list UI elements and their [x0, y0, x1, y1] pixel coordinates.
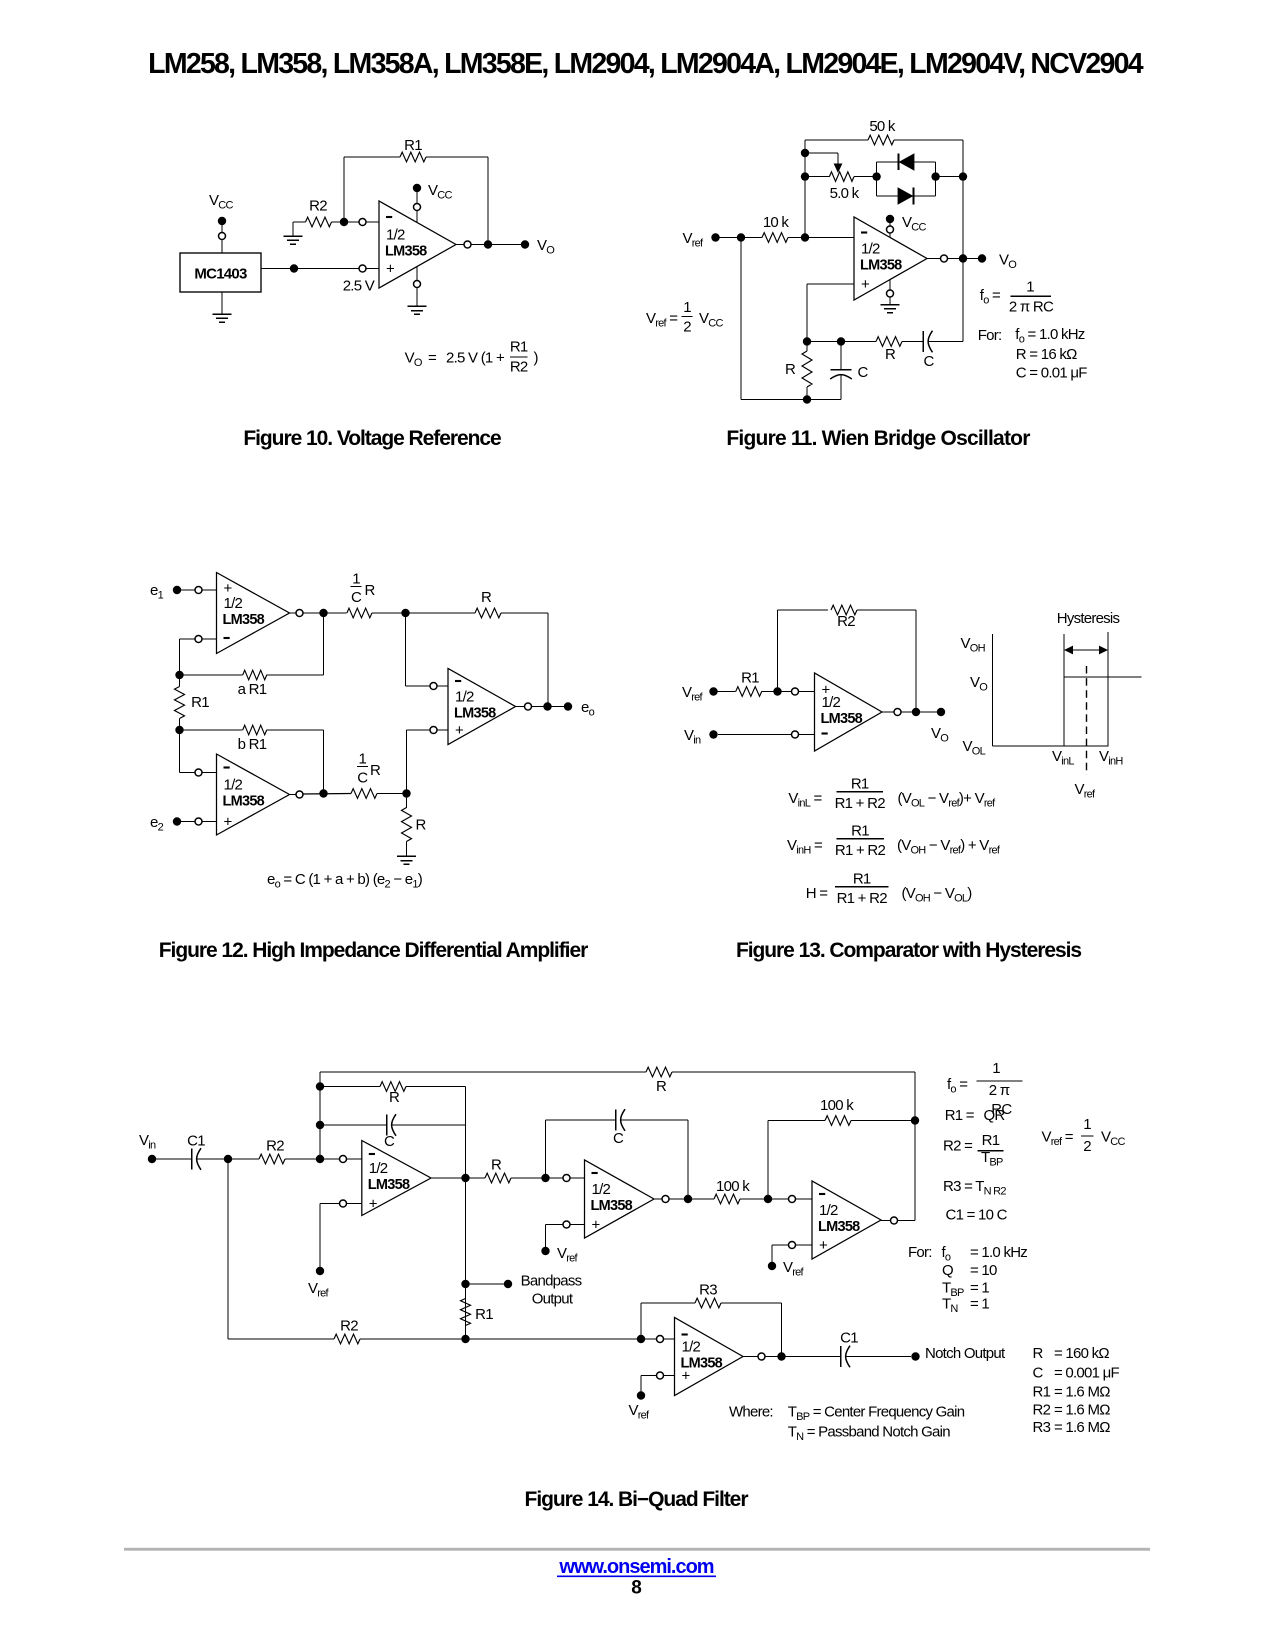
formula H (fig13)	[806, 870, 973, 907]
terminal Vref C (fig14)	[768, 1262, 776, 1270]
svg-text:1/2: 1/2	[386, 227, 405, 244]
svg-text:10 k: 10 k	[763, 214, 790, 231]
node top feedback junction (fig14)	[911, 1116, 919, 1124]
svg-text:Q: Q	[942, 1262, 953, 1279]
potentiometer 5.0 k (fig11)	[805, 172, 877, 182]
svg-text:C: C	[351, 589, 362, 606]
svg-text:+: +	[682, 1368, 691, 1385]
svg-text:Figure 11. Wien Bridge Oscilla: Figure 11. Wien Bridge Oscillator	[726, 427, 1030, 450]
svg-text:LM358: LM358	[223, 612, 265, 628]
resistor 100 k feedback (fig14)	[768, 1116, 915, 1199]
node integrator input junction (fig12)	[401, 609, 409, 617]
svg-text:fo = 1.0 kHz: fo = 1.0 kHz	[1015, 326, 1084, 346]
output wire and node (fig10)	[456, 241, 525, 248]
VCC supply tap (fig10)	[413, 184, 421, 223]
svg-text:R3: R3	[1033, 1419, 1051, 1436]
resistor 10 k (fig11)	[716, 233, 806, 243]
node bottom junction central (fig14)	[461, 1335, 469, 1343]
node minus input junction (fig14 A)	[316, 1155, 324, 1163]
svg-text:R1: R1	[741, 670, 759, 687]
svg-text:R1: R1	[851, 822, 869, 839]
svg-text:R: R	[885, 346, 896, 363]
ground at R2 left (fig10)	[284, 222, 306, 244]
svg-text:100 k: 100 k	[716, 1178, 750, 1195]
op-amp U10 1/2 LM358 (fig14 D)	[675, 1318, 744, 1396]
svg-text:R: R	[365, 582, 376, 599]
wire inverting input B (fig14)	[550, 1175, 585, 1182]
resistor R1 middle (fig12)	[175, 675, 185, 730]
svg-text:1: 1	[1026, 279, 1034, 296]
svg-text:R1: R1	[853, 870, 871, 887]
node summing junction bottom (fig12)	[402, 789, 410, 797]
svg-text:b R1: b R1	[238, 736, 267, 753]
svg-text:Figure 13. Comparator with Hys: Figure 13. Comparator with Hysteresis	[736, 939, 1081, 962]
graph VinH vertical line	[1107, 632, 1109, 746]
svg-text:LM358: LM358	[223, 794, 265, 810]
capacitor C shunt (fig11)	[830, 342, 852, 400]
wire e1 to plus input (fig12)	[181, 587, 217, 594]
graph axes (fig13)	[993, 634, 1109, 746]
svg-text:Where:: Where:	[729, 1404, 773, 1421]
terminal e1 (fig12)	[150, 582, 181, 602]
svg-text:R1: R1	[1033, 1384, 1051, 1401]
ground below R (fig12)	[397, 855, 416, 857]
svg-text:fo =: fo =	[980, 287, 1001, 307]
output wire C (fig14)	[881, 1217, 915, 1224]
svg-text:R: R	[785, 361, 796, 378]
svg-text:1/2: 1/2	[224, 595, 243, 612]
terminal Vin (fig14)	[148, 1155, 156, 1163]
text component values (fig14)	[1033, 1345, 1120, 1436]
formula VinH (fig13)	[787, 822, 1001, 859]
node output U3 junction (fig12)	[319, 609, 327, 617]
node output junction (fig11)	[959, 254, 967, 262]
terminal VO (fig11)	[978, 254, 986, 262]
svg-text:C: C	[1033, 1365, 1044, 1382]
wire right vertical to output C (fig14)	[914, 1072, 916, 1221]
wire Vref divider vertical (fig11)	[740, 238, 742, 400]
wire plus input C to Vref (fig14)	[772, 1242, 812, 1263]
node plus input wire junction (fig10)	[290, 264, 298, 272]
wire plus input B to Vref (fig14)	[546, 1221, 585, 1247]
node output junction (fig10)	[484, 240, 492, 248]
svg-text:= 1: = 1	[970, 1280, 989, 1297]
output wire D (fig14)	[743, 1353, 841, 1360]
node bandpass tap (fig14)	[461, 1280, 469, 1288]
output wire U4 (fig12)	[290, 791, 352, 798]
node second feedback tap (fig14)	[316, 1082, 324, 1090]
terminal Vref (fig13)	[709, 687, 717, 695]
svg-text:Hysteresis: Hysteresis	[1057, 610, 1120, 627]
resistor R1 (fig10 feedback)	[344, 152, 488, 162]
svg-text:www.onsemi.com: www.onsemi.com	[558, 1556, 713, 1578]
node gain network tap (fig11)	[959, 172, 967, 180]
label fraction 1/C R top (fig12)	[351, 571, 376, 607]
svg-text:2.5 V (1 +: 2.5 V (1 +	[446, 350, 505, 367]
svg-text:1/2: 1/2	[369, 1160, 388, 1177]
svg-text:1/2: 1/2	[861, 241, 880, 258]
op-amp U3 1/2 LM358 (fig12 top)	[217, 573, 290, 654]
svg-text:C1: C1	[840, 1330, 858, 1347]
svg-text:1/2: 1/2	[592, 1181, 611, 1198]
footer link www.onsemi.com	[557, 1556, 716, 1578]
terminal eo (fig12)	[564, 702, 572, 710]
svg-text:1/2: 1/2	[224, 777, 243, 794]
svg-text:R: R	[1033, 1345, 1044, 1362]
formula fo (fig14)	[947, 1060, 1022, 1118]
svg-text:= 1.0 kHz: = 1.0 kHz	[970, 1244, 1027, 1261]
node output U5 junction (fig12)	[543, 702, 551, 710]
terminal Vref A (fig14)	[316, 1267, 324, 1275]
node Vref junction (fig11)	[737, 233, 745, 241]
node output D junction (fig14)	[777, 1352, 785, 1360]
capacitor C1 input (fig14)	[156, 1148, 228, 1170]
node feedback junction b (fig12)	[175, 726, 183, 734]
svg-text:1: 1	[352, 571, 360, 588]
node minus input junction (fig10)	[340, 218, 348, 226]
output wire B (fig14)	[654, 1196, 714, 1203]
wire right vertical to output (fig12)	[547, 613, 549, 707]
svg-text:R: R	[656, 1078, 667, 1095]
svg-text:C: C	[613, 1130, 624, 1147]
resistor 50 k (fig11)	[805, 135, 963, 145]
wire feedback right vertical (fig10)	[487, 157, 489, 245]
wire noninverting input (fig10)	[261, 265, 379, 272]
left feedback vertical wire (fig11)	[804, 140, 806, 238]
svg-text:Figure 10. Voltage Reference: Figure 10. Voltage Reference	[243, 427, 501, 450]
svg-text:1/2: 1/2	[819, 1202, 838, 1219]
svg-text:C1 = 10 C: C1 = 10 C	[946, 1207, 1008, 1224]
resistor R3 feedback (fig14)	[641, 1298, 782, 1356]
wire Vin to minus input (fig13)	[718, 731, 815, 738]
svg-text:R1 + R2: R1 + R2	[837, 890, 888, 907]
svg-text:+: +	[819, 1237, 828, 1254]
formula VinL (fig13)	[788, 775, 996, 812]
output wire (fig11)	[927, 255, 978, 262]
graph dashed Vref line	[1086, 666, 1088, 775]
svg-text:LM358: LM358	[385, 244, 427, 260]
wire left feedback vertical (fig14)	[319, 1072, 321, 1159]
svg-text:R1: R1	[851, 775, 869, 792]
svg-text:2 π RC: 2 π RC	[1009, 299, 1054, 316]
wire plus input (fig13)	[778, 688, 815, 695]
svg-text:R2: R2	[1033, 1402, 1051, 1419]
graph output level line	[1064, 676, 1142, 678]
wire plus input U5 (fig12)	[407, 727, 449, 794]
svg-text:LM258, LM358, LM358A, LM358E,: LM258, LM358, LM358A, LM358E, LM2904, LM…	[148, 48, 1144, 80]
svg-text:1/2: 1/2	[682, 1339, 701, 1356]
svg-text:1: 1	[1083, 1116, 1091, 1133]
svg-text:QR: QR	[984, 1107, 1006, 1124]
node inverting input (fig11)	[801, 233, 809, 241]
node diode box left (fig11)	[872, 172, 880, 180]
svg-text:R1 + R2: R1 + R2	[835, 795, 886, 812]
svg-text:= 1.6 MΩ: = 1.6 MΩ	[1054, 1419, 1110, 1436]
wire diode box to right vertical (fig11)	[936, 176, 963, 178]
svg-text:= 1.6 MΩ: = 1.6 MΩ	[1054, 1384, 1110, 1401]
wire central vertical (fig14)	[465, 1087, 467, 1340]
label Bandpass Output (fig14)	[521, 1273, 582, 1308]
svg-text:R1: R1	[982, 1132, 1000, 1149]
svg-text:2.5 V: 2.5 V	[343, 278, 375, 295]
wire inverting input (fig12 top)	[180, 636, 217, 676]
svg-text:H =: H =	[806, 885, 829, 902]
formula VO = 2.5 V (1 + R1/R2) (fig10)	[405, 339, 539, 376]
node output A junction (fig14)	[461, 1174, 469, 1182]
svg-text:R2: R2	[510, 359, 528, 376]
node C feedback tap (fig14)	[316, 1121, 324, 1129]
wire down to inverting input U5 (fig12)	[406, 613, 449, 690]
svg-text:TBP = Center Frequency Gain: TBP = Center Frequency Gain	[788, 1404, 965, 1424]
terminal Vin (fig13)	[709, 730, 717, 738]
svg-text:= 10: = 10	[970, 1262, 997, 1279]
wire plus input D to Vref (fig14)	[641, 1372, 675, 1392]
op-amp U8 1/2 LM358 (fig14 B)	[585, 1160, 655, 1238]
svg-text:R2: R2	[266, 1138, 284, 1155]
svg-text:2 π: 2 π	[989, 1082, 1010, 1099]
svg-text:5.0 k: 5.0 k	[830, 185, 860, 202]
formula R2 = R1/TBP (fig14)	[943, 1132, 1003, 1169]
svg-text:R: R	[416, 817, 427, 834]
formula fo = 1 over 2 pi RC (fig11)	[980, 279, 1054, 316]
pot wiper arm with arrow (fig11)	[805, 153, 842, 173]
svg-text:R2 =: R2 =	[943, 1138, 973, 1155]
output wire U5 (fig12)	[516, 703, 569, 710]
node RC network left (fig11)	[803, 337, 811, 345]
formula R1 = QR (fig14)	[945, 1107, 1006, 1124]
svg-text:R3: R3	[699, 1282, 717, 1299]
text Where legend (fig14)	[729, 1404, 965, 1444]
resistor 1/C R bottom (fig12)	[351, 789, 407, 799]
svg-text:C: C	[357, 770, 368, 787]
terminal Vref B (fig14)	[541, 1247, 549, 1255]
node diode box right (fig11)	[931, 172, 939, 180]
node pot left end (fig11)	[801, 172, 809, 180]
formula Vref = half VCC (fig14)	[1042, 1116, 1126, 1155]
node bottom return junction (fig11)	[803, 395, 811, 403]
svg-text:+: +	[455, 722, 464, 739]
svg-text:+: +	[369, 1196, 378, 1213]
svg-text:TN = Passband Notch Gain: TN = Passband Notch Gain	[788, 1424, 951, 1444]
capacitor C feedback B (fig14)	[546, 1109, 689, 1199]
svg-text:R2: R2	[340, 1318, 358, 1335]
diode D2 pointing right (fig11)	[898, 187, 914, 205]
svg-text:Figure 12. High Impedance Diff: Figure 12. High Impedance Differential A…	[159, 939, 588, 962]
svg-text:C1: C1	[187, 1133, 205, 1150]
wire inverting input (fig11)	[805, 237, 854, 239]
resistor R2 bottom feedback (fig14)	[228, 1159, 641, 1344]
svg-text:Bandpass: Bandpass	[521, 1273, 582, 1290]
resistor a R1 (fig12)	[180, 613, 324, 680]
node plus input junction (fig13)	[773, 687, 781, 695]
svg-text:LM358: LM358	[368, 1177, 410, 1193]
svg-text:R1: R1	[475, 1306, 493, 1323]
svg-text:1/2: 1/2	[822, 694, 841, 711]
svg-text:1: 1	[992, 1060, 1000, 1077]
resistor R shunt (fig12)	[402, 794, 412, 857]
wire e2 to plus input (fig12)	[181, 818, 217, 825]
resistor b R1 (fig12)	[180, 725, 324, 793]
node minus input junction D (fig14)	[637, 1335, 645, 1343]
svg-text:+: +	[386, 261, 395, 278]
pin ground stub (fig11)	[881, 280, 900, 313]
wire feedback left vertical (fig13)	[777, 610, 779, 692]
svg-text:LM358: LM358	[454, 706, 496, 722]
capacitor C1 output (fig14)	[841, 1346, 912, 1368]
capacitor C feedback A (fig14)	[320, 1114, 466, 1136]
terminal Notch Output (fig14)	[911, 1352, 919, 1360]
terminal Bandpass Output (fig14)	[504, 1280, 512, 1288]
svg-text:R1: R1	[510, 339, 528, 356]
svg-text:R: R	[491, 1157, 502, 1174]
resistor R1 (fig13)	[714, 687, 778, 697]
node minus input junction C (fig14)	[764, 1195, 772, 1203]
node input junction (fig14)	[224, 1155, 232, 1163]
svg-text:+: +	[224, 814, 233, 831]
op-amp U2 1/2 LM358 (fig11)	[854, 217, 927, 300]
formula Vref = half VCC (fig11)	[646, 299, 723, 336]
svg-text:= 160 kΩ: = 160 kΩ	[1054, 1345, 1109, 1362]
footer divider rule	[124, 1548, 1150, 1551]
diode D1 pointing left (fig11)	[899, 153, 915, 171]
svg-text:8: 8	[631, 1578, 641, 1599]
node feedback junction a (fig12)	[175, 671, 183, 679]
VCC tap above MC1403	[218, 217, 226, 253]
svg-text:LM358: LM358	[860, 258, 902, 274]
output wire (fig13)	[882, 709, 941, 716]
wire junction to R top (fig12)	[406, 612, 476, 614]
svg-text:=: =	[428, 350, 437, 367]
svg-text:= 1: = 1	[970, 1296, 989, 1313]
node output B junction (fig14)	[684, 1195, 692, 1203]
capacitor C series (fig11)	[923, 331, 963, 353]
svg-text:= 0.001 μF: = 0.001 μF	[1054, 1365, 1120, 1382]
label fraction 1/C R bottom (fig12)	[357, 751, 381, 787]
svg-text:R1 =: R1 =	[945, 1107, 975, 1124]
svg-text:1: 1	[359, 751, 367, 768]
svg-text:For:: For:	[978, 327, 1002, 344]
resistor R1 shunt (fig14)	[461, 1284, 471, 1339]
pin 4 ground stub (fig10)	[408, 267, 427, 315]
svg-text:LM358: LM358	[818, 1219, 860, 1235]
svg-text:C: C	[857, 364, 868, 381]
node output U4 junction (fig12)	[319, 789, 327, 797]
wire feedback right vertical (fig13)	[915, 610, 917, 712]
op-amp U4 1/2 LM358 (fig12 bottom)	[217, 754, 290, 835]
op-amp U9 1/2 LM358 (fig14 C)	[812, 1181, 881, 1259]
node shunt C tap (fig11)	[837, 337, 845, 345]
wire inverting input (fig10)	[348, 219, 379, 226]
wire inverting input (fig12 bottom)	[180, 730, 217, 776]
resistor 1/C R top (fig12)	[347, 608, 406, 618]
wire bandpass output (fig14)	[466, 1283, 505, 1285]
text For: values (fig11)	[978, 326, 1088, 382]
svg-text:100 k: 100 k	[820, 1097, 854, 1114]
VCC supply tap (fig11)	[886, 215, 894, 238]
svg-text:Output: Output	[532, 1291, 574, 1308]
resistor R series (fig11)	[876, 337, 923, 347]
svg-text:R: R	[389, 1089, 400, 1106]
svg-text:C: C	[923, 353, 934, 370]
resistor R series A-B (fig14)	[485, 1173, 546, 1183]
op-amp U5 1/2 LM358 (fig12 right)	[448, 669, 516, 745]
svg-text:2: 2	[683, 319, 691, 336]
hysteresis double arrow (graph)	[1064, 646, 1108, 655]
op-amp U6 1/2 LM358 (fig13)	[815, 673, 883, 751]
svg-text:R1 + R2: R1 + R2	[835, 842, 886, 859]
svg-text:C: C	[384, 1133, 395, 1150]
wire top feedback (fig14)	[320, 1067, 915, 1077]
diode clamp box wires (fig11)	[877, 162, 936, 196]
terminal e2 (fig12)	[150, 814, 181, 834]
svg-text:eo = C (1 + a + b) (e2 − e1): eo = C (1 + a + b) (e2 − e1)	[267, 871, 423, 891]
wire noninverting input (fig11)	[807, 284, 854, 342]
svg-text:LM358: LM358	[821, 711, 863, 727]
wire inverting input C (fig14)	[772, 1196, 812, 1203]
op-amp U1 1/2 LM358 (fig10)	[379, 201, 456, 288]
output wire A (fig14)	[431, 1177, 485, 1179]
voltage reference MC1403 (fig10)	[180, 253, 261, 292]
terminal VO (fig13)	[937, 708, 945, 716]
svg-text:2: 2	[1083, 1138, 1091, 1155]
svg-text:+: +	[592, 1217, 601, 1234]
svg-text:50 k: 50 k	[869, 118, 896, 135]
svg-text:R = 16 kΩ: R = 16 kΩ	[1016, 346, 1077, 363]
svg-text:LM358: LM358	[591, 1198, 633, 1214]
resistor 100 k series (fig14)	[714, 1194, 768, 1204]
node minus input junction B (fig14)	[541, 1174, 549, 1182]
wire inverting input A (fig14)	[324, 1156, 362, 1163]
resistor R2 input (fig14)	[228, 1154, 320, 1164]
node pot wiper tap (fig11)	[801, 149, 809, 157]
text For: values (fig14)	[908, 1244, 1027, 1315]
wire output right vertical (fig11)	[962, 140, 964, 342]
graph VinL vertical line	[1063, 634, 1065, 746]
svg-text:R2: R2	[309, 198, 327, 215]
svg-text:a R1: a R1	[238, 681, 267, 698]
resistor R second feedback (fig14)	[320, 1082, 466, 1125]
svg-text:fo =: fo =	[947, 1076, 968, 1096]
svg-text:= 1.6 MΩ: = 1.6 MΩ	[1054, 1402, 1110, 1419]
op-amp U7 1/2 LM358 (fig14 A)	[362, 1141, 431, 1216]
resistor R2 (fig10)	[306, 217, 345, 227]
svg-text:Figure 14. Bi−Quad Filter: Figure 14. Bi−Quad Filter	[525, 1488, 749, 1511]
svg-text:R: R	[481, 589, 492, 606]
terminal VO (fig10)	[521, 240, 529, 248]
svg-text:MC1403: MC1403	[194, 266, 247, 283]
wire bottom return (fig11)	[741, 399, 841, 401]
ground below MC1403	[213, 292, 232, 322]
svg-text:1/2: 1/2	[455, 689, 474, 706]
node output junction (fig13)	[912, 708, 920, 716]
svg-text:R1: R1	[191, 694, 209, 711]
terminal Vref (fig11)	[711, 233, 719, 241]
svg-text:1: 1	[683, 299, 691, 316]
svg-text:For:: For:	[908, 1244, 932, 1261]
svg-text:R: R	[370, 762, 381, 779]
terminal Vref D (fig14)	[637, 1391, 645, 1399]
output wire U3 (fig12)	[290, 610, 347, 617]
svg-text:+: +	[861, 276, 870, 293]
svg-text:C = 0.01 μF: C = 0.01 μF	[1016, 365, 1087, 382]
wire from feedback to inverting node (fig10)	[343, 157, 345, 222]
wire RC row (fig11)	[807, 341, 876, 343]
wire inverting input D (fig14)	[645, 1336, 675, 1343]
wire plus input A to Vref (fig14)	[320, 1200, 362, 1267]
resistor R shunt (fig11)	[802, 342, 812, 400]
svg-text:Notch Output: Notch Output	[925, 1345, 1006, 1362]
resistor R top (fig12)	[475, 608, 548, 618]
